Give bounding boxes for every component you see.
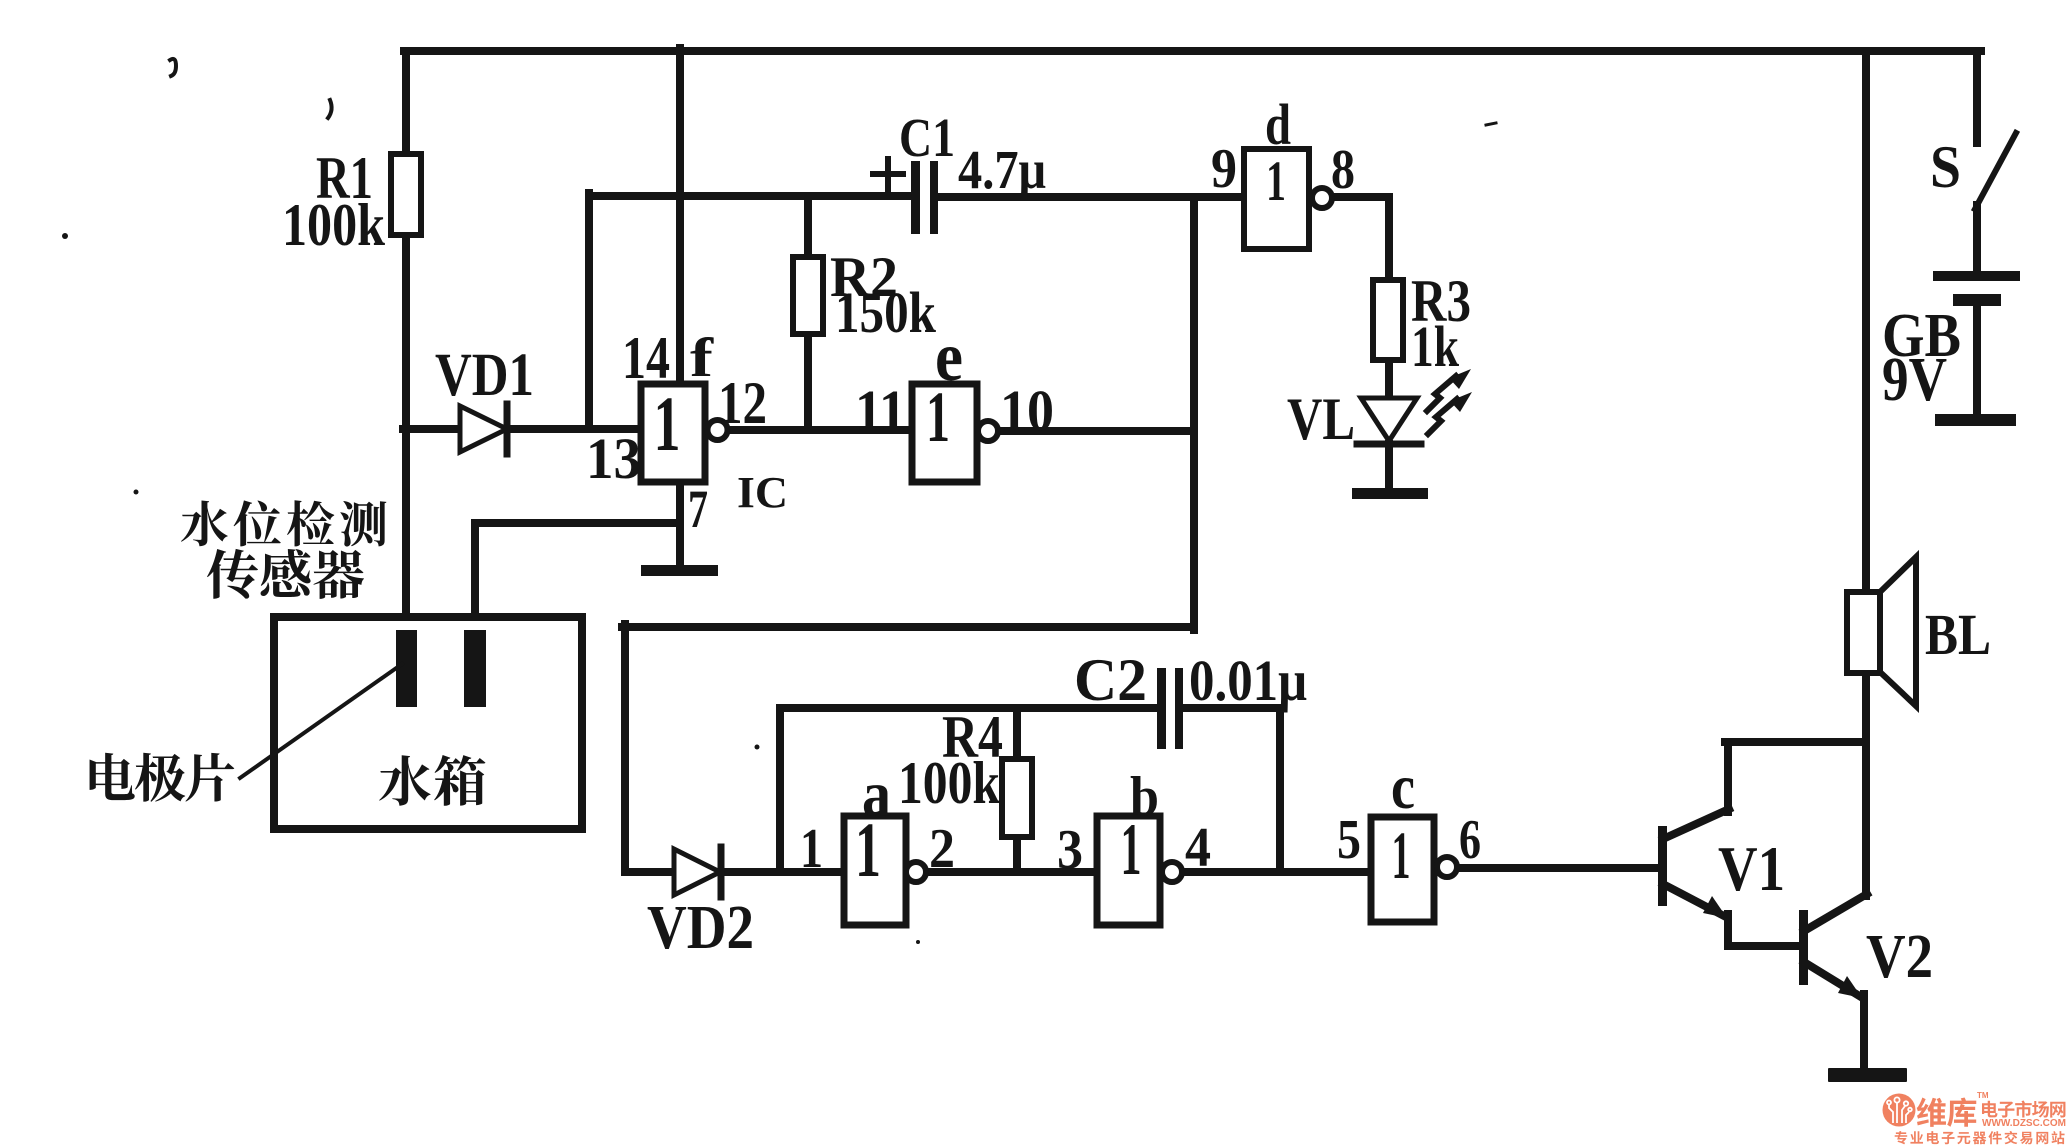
svg-text:11: 11 <box>855 378 906 443</box>
svg-text:2: 2 <box>929 818 955 880</box>
svg-text:1: 1 <box>926 377 950 457</box>
svg-text:6: 6 <box>1459 809 1481 871</box>
svg-text:1: 1 <box>1392 817 1411 893</box>
svg-text:d: d <box>1265 92 1291 157</box>
svg-text:4.7μ: 4.7μ <box>958 139 1046 200</box>
svg-text:1: 1 <box>800 818 823 880</box>
svg-text:3: 3 <box>1057 819 1083 881</box>
svg-text:IC: IC <box>737 468 788 517</box>
svg-text:8: 8 <box>1331 139 1355 201</box>
svg-text:C2: C2 <box>1074 647 1147 713</box>
svg-text:100k: 100k <box>898 750 1001 816</box>
svg-text:V1: V1 <box>1718 834 1785 904</box>
svg-text:VL: VL <box>1287 386 1355 452</box>
svg-text:10: 10 <box>1000 378 1054 443</box>
svg-text:c: c <box>1391 751 1415 822</box>
svg-text:100k: 100k <box>282 192 386 258</box>
svg-text:V2: V2 <box>1866 923 1933 991</box>
svg-text:1: 1 <box>1266 150 1286 213</box>
svg-text:1: 1 <box>654 380 681 467</box>
svg-text:7: 7 <box>688 479 708 539</box>
svg-text:9: 9 <box>1211 138 1237 200</box>
svg-text:12: 12 <box>718 370 767 436</box>
svg-text:BL: BL <box>1925 602 1991 667</box>
svg-text:f: f <box>690 327 714 388</box>
svg-text:C1: C1 <box>899 107 955 168</box>
svg-text:150k: 150k <box>835 280 937 345</box>
svg-text:13: 13 <box>586 426 641 491</box>
svg-text:1: 1 <box>855 806 881 893</box>
svg-text:WWW.DZSC.COM: WWW.DZSC.COM <box>1982 1117 2066 1129</box>
svg-text:S: S <box>1930 134 1961 200</box>
svg-text:5: 5 <box>1337 809 1361 871</box>
svg-text:1: 1 <box>1121 809 1142 891</box>
svg-text:4: 4 <box>1185 817 1211 879</box>
svg-text:0.01μ: 0.01μ <box>1189 648 1307 713</box>
svg-text:VD1: VD1 <box>435 342 534 409</box>
svg-text:TM: TM <box>1977 1091 1989 1100</box>
svg-text:1k: 1k <box>1411 314 1460 379</box>
svg-text:VD2: VD2 <box>647 894 754 962</box>
svg-text:9V: 9V <box>1882 346 1947 414</box>
